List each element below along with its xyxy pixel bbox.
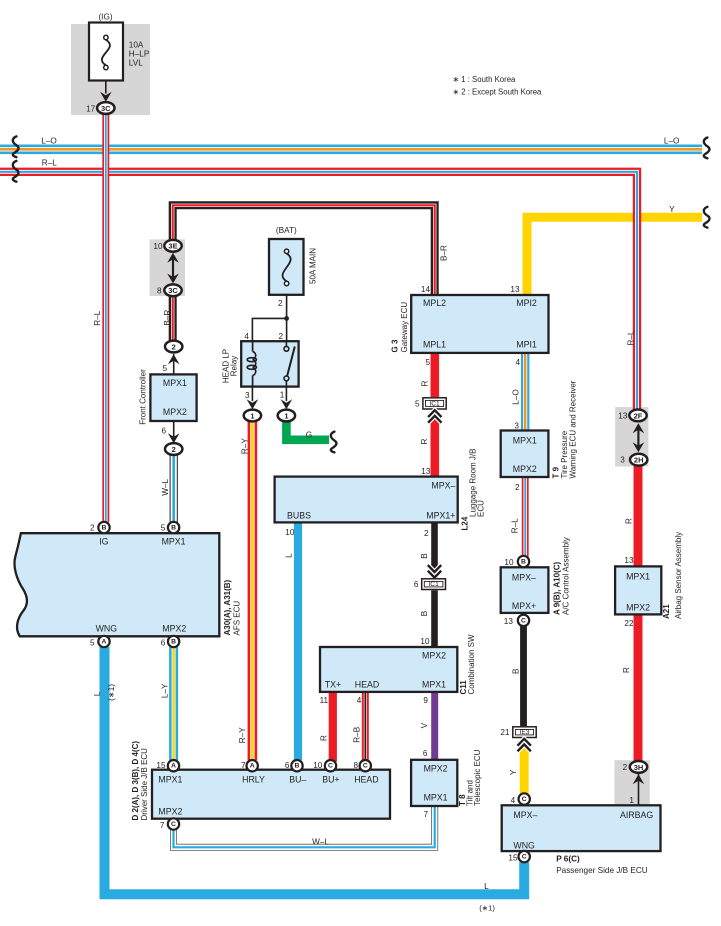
svg-text:8: 8 (157, 287, 162, 296)
svg-text:13: 13 (624, 556, 634, 565)
svg-text:B: B (420, 553, 429, 559)
svg-text:10A: 10A (129, 41, 144, 50)
svg-text:∗ 1 : South Korea: ∗ 1 : South Korea (453, 75, 517, 84)
svg-text:MPX1: MPX1 (626, 572, 650, 582)
svg-text:R–Y: R–Y (238, 727, 247, 743)
svg-text:AFS ECU: AFS ECU (233, 601, 242, 636)
svg-text:7: 7 (241, 761, 246, 770)
svg-text:C: C (522, 854, 527, 861)
svg-text:MPX2: MPX2 (513, 464, 537, 474)
svg-text:2: 2 (515, 483, 520, 492)
svg-text:MPX+: MPX+ (512, 601, 536, 611)
svg-text:MPX–: MPX– (512, 573, 536, 583)
svg-text:H–LP: H–LP (129, 50, 150, 59)
svg-text:B: B (295, 763, 300, 770)
svg-text:11: 11 (320, 696, 329, 705)
svg-text:G 3: G 3 (391, 339, 400, 352)
svg-text:6: 6 (414, 580, 419, 589)
svg-text:MPL2: MPL2 (423, 298, 446, 308)
svg-text:L–O: L–O (664, 136, 679, 145)
svg-text:5: 5 (162, 364, 167, 373)
svg-text:6: 6 (161, 427, 166, 436)
svg-text:Passenger Side J/B ECU: Passenger Side J/B ECU (556, 866, 648, 875)
svg-text:AIRBAG: AIRBAG (620, 810, 653, 820)
svg-text:10: 10 (285, 528, 295, 537)
svg-text:10: 10 (153, 242, 163, 251)
svg-text:2: 2 (172, 342, 176, 351)
svg-text:Airbag Sensor Assembly: Airbag Sensor Assembly (674, 532, 683, 619)
svg-text:BU+: BU+ (322, 775, 339, 785)
svg-text:MPX2: MPX2 (158, 807, 182, 817)
svg-text:2: 2 (90, 524, 95, 533)
svg-text:3C: 3C (168, 286, 178, 295)
svg-text:A: A (102, 638, 107, 645)
svg-text:∗ 2 : Except South Korea: ∗ 2 : Except South Korea (453, 88, 543, 97)
svg-text:21: 21 (500, 728, 510, 737)
svg-text:D 2(A), D 3(B), D 4(C): D 2(A), D 3(B), D 4(C) (131, 741, 140, 821)
svg-text:3: 3 (620, 456, 625, 465)
svg-text:IG: IG (99, 537, 108, 547)
svg-text:13: 13 (618, 411, 628, 420)
svg-text:L24: L24 (461, 516, 470, 530)
svg-text:B: B (171, 524, 176, 531)
svg-text:A21: A21 (662, 604, 671, 619)
svg-text:B–R: B–R (440, 245, 449, 261)
svg-text:4: 4 (515, 358, 520, 367)
svg-text:(IG): (IG) (98, 13, 112, 22)
svg-text:B: B (420, 610, 429, 616)
svg-text:(BAT): (BAT) (276, 226, 297, 235)
svg-text:15: 15 (156, 761, 166, 770)
svg-text:7: 7 (160, 821, 165, 830)
svg-text:W–L: W–L (312, 837, 329, 846)
svg-text:13: 13 (510, 285, 520, 294)
svg-text:A: A (171, 763, 176, 770)
svg-text:MPX–: MPX– (513, 810, 537, 820)
svg-text:R: R (625, 518, 634, 524)
svg-text:10: 10 (313, 761, 323, 770)
svg-text:W–L: W–L (161, 478, 170, 495)
svg-text:10: 10 (504, 558, 514, 567)
svg-text:Y: Y (669, 205, 675, 214)
svg-text:1: 1 (629, 796, 634, 805)
svg-text:5: 5 (415, 399, 420, 408)
svg-text:7: 7 (423, 810, 428, 819)
svg-text:R–B: R–B (352, 726, 361, 742)
svg-text:TX+: TX+ (325, 680, 341, 690)
svg-text:V: V (420, 722, 429, 728)
svg-text:L–Y: L–Y (161, 683, 170, 698)
svg-text:MPX1: MPX1 (513, 436, 537, 446)
svg-text:1: 1 (280, 391, 285, 400)
svg-text:B: B (521, 558, 526, 565)
svg-text:Warning ECU and Receiver: Warning ECU and Receiver (569, 380, 578, 478)
svg-text:MPX2: MPX2 (162, 624, 186, 634)
svg-text:C: C (328, 763, 333, 770)
svg-text:Y: Y (509, 769, 518, 775)
svg-text:B: B (512, 668, 521, 674)
svg-text:4: 4 (511, 796, 516, 805)
svg-text:G: G (306, 430, 312, 439)
svg-text:HRLY: HRLY (242, 775, 265, 785)
svg-text:R–L: R–L (626, 330, 635, 345)
svg-text:BUBS: BUBS (287, 511, 311, 521)
svg-text:Driver Side J/B ECU: Driver Side J/B ECU (140, 748, 149, 821)
svg-text:1: 1 (284, 411, 288, 420)
svg-text:IC1: IC1 (429, 400, 440, 407)
svg-text:MPX2: MPX2 (626, 603, 650, 613)
svg-text:R–L: R–L (42, 159, 57, 168)
svg-text:L: L (93, 691, 102, 696)
svg-text:R–L: R–L (511, 518, 520, 533)
svg-text:B: B (102, 524, 107, 531)
svg-text:5: 5 (161, 524, 166, 533)
svg-text:R: R (320, 735, 329, 741)
svg-text:ECU: ECU (477, 500, 486, 517)
svg-text:10: 10 (420, 637, 430, 646)
svg-text:17: 17 (86, 105, 96, 114)
svg-text:2H: 2H (634, 456, 644, 465)
svg-text:MPX1: MPX1 (158, 775, 182, 785)
svg-text:50A MAIN: 50A MAIN (309, 248, 318, 284)
svg-text:2: 2 (424, 529, 429, 538)
svg-text:6: 6 (285, 761, 290, 770)
svg-text:3: 3 (514, 421, 519, 430)
svg-text:2: 2 (278, 299, 283, 308)
svg-text:R–Y: R–Y (240, 438, 249, 454)
svg-text:2: 2 (172, 445, 176, 454)
svg-text:(∗1): (∗1) (479, 904, 495, 913)
svg-text:R: R (421, 381, 430, 387)
svg-text:MPI1: MPI1 (516, 340, 537, 350)
svg-text:B–R: B–R (163, 310, 172, 326)
svg-text:BU–: BU– (289, 775, 306, 785)
svg-text:14: 14 (421, 285, 431, 294)
svg-text:WNG: WNG (513, 841, 535, 851)
svg-text:HEAD: HEAD (355, 680, 379, 690)
svg-text:A: A (250, 763, 255, 770)
svg-text:L–O: L–O (41, 136, 56, 145)
svg-text:Front Controller: Front Controller (139, 369, 148, 425)
svg-text:IC1: IC1 (428, 581, 439, 588)
svg-text:A/C Control Assembly: A/C Control Assembly (562, 537, 571, 615)
svg-text:3H: 3H (634, 763, 644, 772)
svg-text:13: 13 (504, 617, 514, 626)
svg-text:MPX2: MPX2 (163, 407, 187, 417)
svg-text:R: R (420, 438, 429, 444)
svg-text:3E: 3E (168, 242, 177, 251)
svg-text:15: 15 (508, 854, 518, 863)
svg-text:L–O: L–O (511, 389, 520, 404)
svg-text:Combination SW: Combination SW (467, 634, 476, 694)
svg-text:4: 4 (244, 332, 249, 341)
svg-text:R: R (622, 667, 631, 673)
svg-text:MPX1: MPX1 (424, 793, 448, 803)
svg-text:MPX2: MPX2 (422, 651, 446, 661)
svg-text:8: 8 (353, 761, 358, 770)
svg-text:MPI2: MPI2 (516, 298, 537, 308)
svg-text:P 6(C): P 6(C) (556, 855, 580, 864)
svg-text:6: 6 (423, 749, 428, 758)
svg-text:MPL1: MPL1 (423, 340, 446, 350)
svg-text:MPX–: MPX– (431, 481, 455, 491)
svg-text:(∗1): (∗1) (107, 684, 116, 701)
svg-text:HEAD: HEAD (354, 775, 378, 785)
svg-text:MPX1: MPX1 (163, 378, 187, 388)
svg-text:6: 6 (161, 638, 166, 647)
svg-text:1: 1 (250, 411, 254, 420)
svg-text:MPX1: MPX1 (162, 537, 186, 547)
svg-text:3: 3 (245, 391, 250, 400)
svg-text:IE3: IE3 (520, 729, 530, 736)
svg-text:Gateway ECU: Gateway ECU (400, 302, 409, 353)
svg-text:C: C (171, 821, 176, 828)
svg-text:A30(A), A31(B): A30(A), A31(B) (223, 579, 232, 635)
svg-text:22: 22 (624, 619, 634, 628)
svg-text:2F: 2F (634, 411, 643, 420)
svg-text:3C: 3C (101, 104, 111, 113)
svg-text:MPX1+: MPX1+ (426, 511, 455, 521)
svg-text:5: 5 (425, 358, 430, 367)
svg-text:5: 5 (90, 638, 95, 647)
svg-text:Relay: Relay (230, 356, 239, 376)
svg-text:MPX1: MPX1 (422, 680, 446, 690)
svg-text:9: 9 (423, 696, 428, 705)
svg-text:L: L (285, 553, 294, 558)
svg-text:C: C (522, 796, 527, 803)
svg-text:B: B (171, 638, 176, 645)
svg-text:C: C (521, 617, 526, 624)
svg-text:13: 13 (421, 467, 431, 476)
svg-text:2: 2 (623, 763, 628, 772)
svg-text:R–L: R–L (93, 310, 102, 325)
svg-text:LVL: LVL (129, 59, 143, 68)
svg-text:4: 4 (357, 696, 362, 705)
svg-text:A 9(B), A10(C): A 9(B), A10(C) (553, 561, 562, 615)
svg-text:2: 2 (278, 332, 283, 341)
svg-text:MPX2: MPX2 (424, 764, 448, 774)
svg-text:Telescopic ECU: Telescopic ECU (473, 749, 482, 806)
svg-text:WNG: WNG (96, 624, 118, 634)
svg-text:L: L (484, 882, 489, 891)
svg-text:C: C (363, 763, 368, 770)
